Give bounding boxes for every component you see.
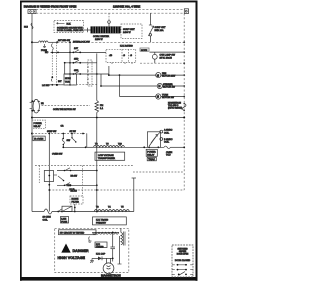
power relay dashed box (32, 120, 45, 128)
heater right dashed box (121, 24, 142, 39)
svg-text:PRIMARY: PRIMARY (96, 222, 106, 225)
svg-text:MOTOR 4W: MOTOR 4W (163, 87, 176, 89)
svg-text:SURF SW: SURF SW (47, 131, 56, 133)
dashed vertical x82.5 (82, 166, 84, 197)
timer box on x49.3 (44, 171, 53, 182)
vertical x108.9 (108, 66, 110, 75)
svg-text:FUSE: FUSE (61, 221, 67, 223)
dashed rail y42.3 (57, 41, 184, 43)
svg-text:OVN LAMP SW: OVN LAMP SW (160, 54, 176, 57)
svg-text:NOI: NOI (24, 27, 28, 29)
HV dashed box (55, 228, 129, 272)
wire y117.5 (31, 117, 33, 119)
relay box (147, 132, 160, 148)
wire y147.3 left (87, 146, 94, 148)
IR oven box (33, 136, 45, 141)
svg-text:MAGNETRON: MAGNETRON (101, 273, 121, 277)
turntable wire y96.5 (120, 96, 156, 98)
dashed rail top y9.7 (36, 9, 184, 11)
svg-text:H.V. CAP: H.V. CAP (96, 253, 106, 256)
wire y147.3 left extension (63, 146, 87, 148)
fan motor M circle (156, 73, 161, 78)
svg-text:FAN: FAN (162, 72, 167, 75)
mid connector box above wire (70, 196, 83, 204)
svg-text:COIL: COIL (164, 132, 170, 134)
svg-text:FILTER: FILTER (72, 202, 80, 204)
switch drop x63.3 (62, 134, 64, 139)
svg-text:COIL: COIL (43, 219, 49, 221)
HV transformer secondary (92, 231, 118, 233)
stirrer wire y86 (101, 85, 157, 87)
svg-text:SURF CKT: SURF CKT (155, 27, 167, 29)
danger triangle (61, 244, 70, 253)
svg-text:P.C.B.: P.C.B. (70, 189, 76, 191)
svg-text:TRIAC: TRIAC (148, 158, 155, 161)
connector strip x88-92 (88, 60, 92, 86)
svg-text:RELAY: RELAY (147, 154, 155, 157)
fan motor wire y75.1 (109, 74, 156, 76)
bottom right switch box (172, 245, 193, 277)
svg-text:LINE: LINE (61, 219, 66, 221)
oven TCO squiggle (164, 146, 170, 149)
vertical x96.8 (96, 53, 98, 100)
wire y170.5 (57, 170, 97, 172)
svg-text:M: M (158, 85, 160, 88)
border frame right bar (196, 1, 198, 281)
triac box (147, 157, 156, 160)
svg-text:STIRRER: STIRRER (163, 84, 173, 86)
transformer primary coil row2 (94, 210, 129, 212)
border frame bottom bar (21, 277, 198, 281)
svg-text:(AUTO RESET): (AUTO RESET) (168, 106, 182, 109)
dashed rail y13.2 (36, 12, 184, 14)
connector terminal box (106, 49, 136, 62)
power relay label box (146, 149, 157, 156)
svg-text:TRANS: TRANS (96, 245, 104, 248)
wire y62.8 interlock (64, 62, 97, 64)
connector square top right (184, 9, 188, 14)
svg-text:M: M (157, 74, 159, 77)
dashed vertical x39.3 (38, 166, 40, 184)
svg-text:TRANSFORMER: TRANSFORMER (98, 157, 115, 160)
svg-text:BLK: BLK (67, 23, 72, 25)
svg-text:A SMRC: A SMRC (164, 129, 173, 132)
interlock switch NOI (31, 23, 33, 29)
svg-text:120/60HZ 60A, 4 WIRE: 120/60HZ 60A, 4 WIRE (113, 4, 141, 8)
dashed vertical V2 right (183, 14, 185, 191)
vertical x49.3 (48, 134, 50, 212)
R1 coil zigzag (95, 101, 99, 113)
wire y185.3 (57, 184, 97, 186)
svg-text:SCHEMATIC SHOWN WITH: SCHEMATIC SHOWN WITH (57, 27, 83, 30)
svg-text:IR OVEN: IR OVEN (34, 139, 43, 141)
switch row 2 (172, 269, 175, 271)
switch row 1 (172, 264, 175, 266)
diode (98, 257, 102, 261)
switch row 3 open (172, 273, 175, 275)
wire y84.8 (48, 84, 64, 86)
dashed drop x56.4 (55, 42, 57, 85)
svg-text:LOI NC: LOI NC (42, 85, 50, 87)
svg-text:DOOR CLOSED, OVEN OFF: DOOR CLOSED, OVEN OFF (57, 30, 84, 32)
label box row2 (93, 217, 127, 225)
dashed drop x52.3 (51, 42, 53, 44)
dashed rail y133.5 (31, 133, 33, 135)
svg-text:BKR 20A: BKR 20A (155, 29, 165, 32)
svg-text:NOISE: NOISE (72, 199, 79, 201)
transformer label box (95, 242, 107, 248)
vertical x101 (100, 74, 102, 86)
zigzag thermal (44, 209, 52, 214)
TCO squiggle (183, 103, 185, 105)
heater element black rect (91, 26, 121, 33)
vertical x86.8 (86, 134, 88, 148)
wire y147.3 right (125, 146, 164, 148)
vertical winding (121, 232, 123, 244)
wire y74 (65, 73, 109, 75)
note text + oven lamp (140, 48, 149, 51)
LOI NC switch on x52.3 (51, 76, 53, 78)
main left wire vertical (31, 14, 33, 212)
fuse sub symbol (44, 44, 46, 47)
svg-text:1ST: 1ST (74, 48, 79, 50)
svg-text:TURN: TURN (162, 94, 168, 96)
svg-text:OVEN SW: OVEN SW (52, 154, 63, 156)
vertical x133.8 w tick (133, 178, 135, 212)
svg-text:RELAY: RELAY (34, 125, 42, 128)
svg-text:H.V. RATING: H.V. RATING (120, 45, 133, 48)
main wire y42.3 with coil (31, 41, 33, 43)
door dashed box (54, 20, 84, 32)
svg-text:DANGER: DANGER (73, 249, 89, 253)
vertical x70 (69, 42, 71, 85)
svg-text:3RD: 3RD (74, 70, 79, 72)
svg-text:H.V. TRANS: H.V. TRANS (96, 219, 109, 222)
vertical x119.5 (119, 75, 121, 96)
svg-text:HIGH VOLTAGE: HIGH VOLTAGE (58, 256, 86, 260)
border frame left bar (20, 1, 22, 281)
svg-text:2ND: 2ND (74, 59, 79, 61)
ellipse motor left (33, 99, 39, 113)
small box under (61, 217, 69, 224)
dashed y84.7 (60, 84, 97, 86)
svg-text:TOR: TOR (65, 82, 70, 84)
svg-text:MOTOR 4W: MOTOR 4W (162, 97, 175, 99)
vertical x64.7 (64, 63, 66, 74)
svg-text:CONV. HEATER: CONV. HEATER (93, 35, 109, 38)
border frame top bar (21, 1, 198, 3)
relay box (64, 74, 77, 85)
label box row1 (95, 152, 125, 160)
dashed y165.5 (35, 165, 134, 167)
svg-text:POWER: POWER (147, 152, 156, 154)
switch drop x72 (71, 134, 73, 138)
svg-text:MONI: MONI (65, 78, 71, 80)
dashed y190 (49, 189, 184, 191)
svg-text:1ST 2ND SW: 1ST 2ND SW (58, 40, 70, 42)
svg-text:HV CIRCUIT IS TESTED: HV CIRCUIT IS TESTED (60, 232, 85, 234)
dashed y107 (42, 105, 91, 107)
svg-text:SURF UNIT: SURF UNIT (123, 29, 135, 31)
svg-text:1250 W: 1250 W (95, 39, 103, 41)
svg-text:B SMRC: B SMRC (164, 139, 173, 141)
svg-text:TCO: TCO (166, 155, 171, 157)
svg-text:COIL: COIL (164, 142, 170, 144)
svg-text:M: M (157, 96, 159, 99)
svg-text:BR SW: BR SW (71, 176, 78, 178)
transformer primary coil row1 (93, 145, 124, 147)
circuit breaker 20A (149, 13, 151, 25)
svg-text:NOTE: NOTE (141, 50, 148, 52)
svg-text:DOOR CLOSED: DOOR CLOSED (175, 260, 191, 262)
ground left of diode (91, 258, 93, 260)
svg-text:ST SW: ST SW (70, 131, 76, 133)
svg-text:2400 W: 2400 W (123, 32, 131, 34)
connector circle W (108, 13, 110, 21)
svg-text:18 OHM: 18 OHM (43, 217, 51, 219)
dashed rail y63.2 right (140, 62, 184, 64)
HV warning label box (59, 230, 97, 235)
svg-text:NC: NC (45, 52, 49, 54)
svg-text:CONV FAN MOTOR 9W: CONV FAN MOTOR 9W (53, 108, 76, 111)
svg-text:25 W. EACH: 25 W. EACH (160, 56, 173, 59)
svg-text:LOW VOLTAGE: LOW VOLTAGE (98, 154, 114, 157)
capacitor (112, 232, 114, 247)
terminal box L1/N (28, 10, 36, 14)
svg-text:DOOR OPEN: DOOR OPEN (177, 253, 189, 255)
svg-text:POWER: POWER (34, 123, 43, 125)
svg-text:OVEN: OVEN (166, 152, 173, 154)
svg-text:MOTOR 21W: MOTOR 21W (162, 76, 176, 78)
heater left lead (84, 29, 91, 31)
svg-text:DIAGRAM IS VIEWED FROM FRONT: DIAGRAM IS VIEWED FROM FRONT OPEN (24, 4, 77, 8)
dashed y172 right (133, 171, 184, 173)
svg-text:FM: FM (100, 105, 103, 107)
magnetron circle (103, 263, 114, 274)
svg-text:INTERLOCK SW: INTERLOCK SW (73, 42, 91, 44)
